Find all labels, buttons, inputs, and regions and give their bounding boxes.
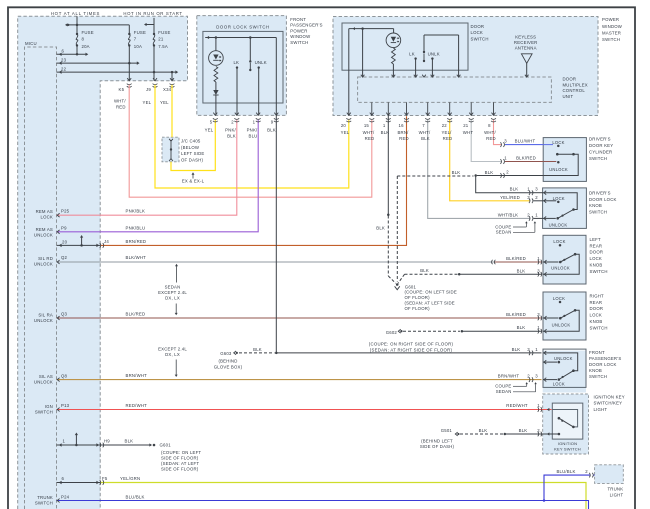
svg-text:DOOR: DOOR [471, 24, 485, 29]
svg-text:BLK: BLK [420, 268, 429, 273]
svg-text:1: 1 [537, 403, 540, 408]
svg-text:DRIVER’S: DRIVER’S [589, 191, 611, 196]
svg-text:Q8: Q8 [61, 374, 68, 379]
svg-text:1: 1 [63, 439, 66, 444]
svg-text:7: 7 [134, 37, 137, 42]
svg-text:(SEDAN: AT LEFT SIDE: (SEDAN: AT LEFT SIDE [405, 301, 455, 306]
svg-text:KNOB: KNOB [589, 368, 602, 373]
svg-text:OF DASH): OF DASH) [181, 157, 203, 162]
svg-text:BLK: BLK [485, 170, 494, 175]
svg-text:3: 3 [527, 195, 530, 200]
svg-text:1: 1 [535, 347, 538, 352]
svg-text:BLK/RED: BLK/RED [516, 155, 536, 160]
svg-text:BLK: BLK [125, 439, 134, 444]
svg-text:EX & EX-L: EX & EX-L [182, 179, 205, 184]
svg-text:2: 2 [535, 195, 538, 200]
svg-text:SWITCH: SWITCH [589, 156, 607, 161]
svg-text:BLK: BLK [421, 136, 430, 141]
svg-text:7.5A: 7.5A [158, 44, 168, 49]
svg-text:WINDOW: WINDOW [602, 24, 623, 29]
svg-text:PNK/BLU: PNK/BLU [126, 226, 146, 231]
svg-text:DOOR LOCK: DOOR LOCK [589, 197, 617, 202]
svg-text:WHT: WHT [463, 130, 474, 135]
svg-text:KNOB: KNOB [590, 263, 603, 268]
svg-text:J/C C405: J/C C405 [181, 139, 201, 144]
svg-text:P25: P25 [61, 209, 70, 214]
svg-text:3: 3 [535, 187, 538, 192]
svg-text:UNLOCK: UNLOCK [34, 380, 53, 385]
svg-text:SEDAN: SEDAN [496, 230, 512, 235]
svg-text:BLK: BLK [267, 127, 276, 132]
svg-text:2: 2 [585, 469, 588, 474]
svg-text:SWITCH: SWITCH [590, 326, 608, 331]
svg-text:EXCEPT 2.4L: EXCEPT 2.4L [158, 347, 187, 352]
svg-text:BLK: BLK [512, 347, 521, 352]
svg-text:BLK: BLK [510, 187, 519, 192]
svg-text:BLK/RED: BLK/RED [506, 312, 526, 317]
svg-text:2: 2 [506, 169, 509, 174]
svg-text:8: 8 [82, 37, 85, 42]
svg-text:16: 16 [399, 123, 405, 128]
svg-text:DX, LX: DX, LX [165, 352, 180, 357]
svg-text:2: 2 [537, 428, 540, 433]
svg-text:20A: 20A [82, 44, 90, 49]
svg-text:(SEDAN: AT RIGHT SIDE OF FLOOR: (SEDAN: AT RIGHT SIDE OF FLOOR) [370, 348, 453, 353]
svg-text:G501: G501 [441, 428, 453, 433]
svg-text:CYLINDER: CYLINDER [589, 149, 612, 154]
svg-text:6: 6 [62, 49, 65, 54]
svg-text:IGN: IGN [45, 404, 53, 409]
svg-text:LIGHT: LIGHT [594, 407, 608, 412]
svg-text:DOOR LOCK SWITCH: DOOR LOCK SWITCH [216, 25, 270, 30]
svg-text:RED: RED [116, 105, 126, 110]
svg-text:LIGHT: LIGHT [610, 493, 624, 498]
svg-text:(COUPE: ON LEFT SIDE: (COUPE: ON LEFT SIDE [405, 290, 457, 295]
svg-text:BLK/RED: BLK/RED [126, 312, 146, 317]
svg-text:BLK: BLK [479, 428, 488, 433]
svg-text:SWITCH: SWITCH [35, 501, 53, 506]
svg-text:22: 22 [442, 123, 448, 128]
svg-text:P13: P13 [61, 403, 70, 408]
svg-text:YEL/: YEL/ [441, 130, 452, 135]
svg-text:BRN/: BRN/ [397, 130, 409, 135]
svg-text:1: 1 [527, 187, 530, 192]
svg-text:POWER: POWER [290, 28, 307, 33]
svg-text:UNLOCK: UNLOCK [552, 322, 571, 327]
svg-text:BLK: BLK [517, 325, 526, 330]
svg-text:EXCEPT 2.4L: EXCEPT 2.4L [158, 290, 187, 295]
svg-text:LOCK: LOCK [553, 239, 565, 244]
svg-text:LEFT SIDE: LEFT SIDE [181, 151, 204, 156]
svg-text:MASTER: MASTER [602, 30, 621, 35]
svg-text:MICU: MICU [25, 41, 37, 46]
svg-text:RED/WHT: RED/WHT [506, 403, 528, 408]
svg-text:SIL AS: SIL AS [39, 374, 53, 379]
svg-text:REAR: REAR [590, 300, 603, 305]
svg-text:21: 21 [463, 123, 469, 128]
svg-text:BLU/WHT: BLU/WHT [515, 139, 536, 144]
svg-text:BLU/BLK: BLU/BLK [556, 469, 575, 474]
svg-text:WHT/BLK: WHT/BLK [498, 212, 519, 217]
svg-text:BLK: BLK [452, 170, 461, 175]
svg-text:DOOR LOCK: DOOR LOCK [589, 362, 617, 367]
svg-text:LOCK: LOCK [553, 296, 565, 301]
svg-text:BRN/RED: BRN/RED [126, 239, 147, 244]
svg-text:1: 1 [253, 120, 256, 125]
svg-text:HOT AT ALL TIMES: HOT AT ALL TIMES [51, 11, 100, 16]
svg-text:8: 8 [488, 123, 491, 128]
svg-text:SIDE OF FLOOR): SIDE OF FLOOR) [161, 467, 199, 472]
svg-text:2: 2 [231, 120, 234, 125]
svg-text:UNLOCK: UNLOCK [34, 233, 53, 238]
svg-text:WHT/: WHT/ [484, 130, 496, 135]
svg-text:Q2: Q2 [61, 255, 68, 260]
svg-text:22: 22 [61, 67, 67, 72]
svg-text:SWITCH: SWITCH [290, 40, 308, 45]
svg-text:LOCK: LOCK [590, 256, 603, 261]
svg-text:RED: RED [443, 136, 453, 141]
svg-text:RED: RED [399, 136, 409, 141]
svg-text:IGNITION: IGNITION [558, 441, 577, 446]
svg-text:DRIVER’S: DRIVER’S [589, 137, 611, 142]
svg-text:DOOR KEY: DOOR KEY [589, 143, 613, 148]
svg-text:G603: G603 [220, 351, 232, 356]
svg-text:SWITCH: SWITCH [589, 374, 607, 379]
svg-text:WHT/: WHT/ [419, 130, 431, 135]
svg-text:MULTIPLEX: MULTIPLEX [563, 82, 588, 87]
svg-text:OF FLOOR): OF FLOOR) [405, 306, 431, 311]
svg-text:H9: H9 [104, 439, 110, 444]
svg-text:YEL: YEL [160, 100, 169, 105]
svg-text:LK: LK [233, 60, 239, 65]
svg-text:5: 5 [210, 120, 213, 125]
svg-text:YEL/RED: YEL/RED [500, 195, 520, 200]
svg-text:BRN/WHT: BRN/WHT [126, 373, 148, 378]
svg-text:FUSE: FUSE [82, 30, 94, 35]
svg-text:SWITCH: SWITCH [602, 37, 620, 42]
svg-text:SWITCH: SWITCH [590, 269, 608, 274]
svg-text:3: 3 [527, 347, 530, 352]
svg-text:1: 1 [537, 325, 540, 330]
svg-text:WHT/: WHT/ [114, 99, 126, 104]
svg-text:BLK/RED: BLK/RED [506, 256, 526, 261]
svg-text:BLK/WHT: BLK/WHT [126, 255, 147, 260]
svg-text:X34: X34 [163, 87, 172, 92]
svg-text:K5: K5 [119, 87, 125, 92]
svg-text:SWITCH/KEY: SWITCH/KEY [594, 401, 623, 406]
svg-text:BLK: BLK [517, 268, 526, 273]
svg-text:KNOB: KNOB [589, 203, 602, 208]
svg-text:LOCK: LOCK [40, 215, 53, 220]
svg-text:COUPE: COUPE [495, 384, 511, 389]
svg-text:DX, LX: DX, LX [165, 296, 180, 301]
svg-text:SIDE OF DASH): SIDE OF DASH) [420, 444, 455, 449]
svg-text:15: 15 [364, 123, 370, 128]
svg-text:23: 23 [61, 58, 67, 63]
svg-text:RECEIVER: RECEIVER [514, 40, 538, 45]
svg-text:DOOR: DOOR [590, 250, 604, 255]
svg-text:CONTROL: CONTROL [563, 88, 586, 93]
svg-text:YEL: YEL [143, 100, 152, 105]
svg-text:F5: F5 [102, 476, 108, 481]
svg-text:3: 3 [535, 374, 538, 379]
svg-text:BLK: BLK [376, 226, 385, 231]
svg-text:LOCK: LOCK [552, 140, 564, 145]
svg-text:UNLOCK: UNLOCK [549, 167, 568, 172]
svg-text:UNLK: UNLK [428, 51, 440, 56]
svg-text:RED: RED [365, 136, 375, 141]
svg-text:YEL: YEL [341, 130, 350, 135]
svg-text:SEDAN: SEDAN [165, 285, 181, 290]
svg-text:(BEHIND: (BEHIND [218, 359, 237, 364]
svg-text:REM AS: REM AS [36, 227, 53, 232]
svg-text:21: 21 [158, 37, 164, 42]
svg-text:WHT/: WHT/ [363, 130, 375, 135]
svg-text:UNLOCK: UNLOCK [549, 223, 568, 228]
svg-text:(COUPE: ON RIGHT SIDE OF FLOOR: (COUPE: ON RIGHT SIDE OF FLOOR) [369, 342, 454, 347]
svg-text:3: 3 [537, 312, 540, 317]
svg-text:1: 1 [504, 155, 507, 160]
svg-text:SIL RD: SIL RD [38, 256, 53, 261]
svg-text:SIL RA: SIL RA [38, 312, 53, 317]
svg-text:LOCK: LOCK [553, 196, 565, 201]
svg-text:2: 2 [527, 212, 530, 217]
svg-text:DOOR: DOOR [563, 77, 577, 82]
svg-text:1: 1 [537, 256, 540, 261]
svg-text:(SEDAN: AT LEFT: (SEDAN: AT LEFT [161, 461, 199, 466]
svg-text:BLK: BLK [253, 347, 262, 352]
svg-text:20: 20 [341, 123, 347, 128]
svg-text:UNIT: UNIT [563, 94, 574, 99]
svg-text:PNK/: PNK/ [225, 127, 236, 132]
svg-text:(BELOW: (BELOW [181, 145, 200, 150]
svg-text:LK: LK [409, 51, 415, 56]
svg-text:BLK: BLK [381, 130, 390, 135]
svg-text:YEL: YEL [205, 127, 214, 132]
svg-text:20: 20 [62, 240, 68, 245]
svg-text:2: 2 [527, 374, 530, 379]
svg-text:G602: G602 [386, 330, 398, 335]
svg-text:UNLOCK: UNLOCK [551, 266, 570, 271]
svg-text:TRUNK: TRUNK [37, 495, 53, 500]
svg-text:UNLOCK: UNLOCK [34, 318, 53, 323]
svg-text:BLK: BLK [227, 133, 236, 138]
svg-text:1: 1 [535, 212, 538, 217]
svg-text:P24: P24 [61, 494, 70, 499]
svg-text:BLK: BLK [519, 428, 528, 433]
svg-text:G601: G601 [160, 443, 172, 448]
svg-text:GLOVE BOX): GLOVE BOX) [214, 365, 243, 370]
svg-text:SEDAN: SEDAN [496, 389, 512, 394]
svg-text:YEL/GRN: YEL/GRN [120, 476, 140, 481]
svg-text:J4: J4 [104, 239, 109, 244]
svg-text:SIDE OF FLOOR): SIDE OF FLOOR) [161, 456, 199, 461]
svg-text:REM AS: REM AS [36, 209, 53, 214]
svg-text:FUSE: FUSE [134, 30, 146, 35]
svg-text:LOCK: LOCK [471, 30, 484, 35]
svg-text:LOCK: LOCK [553, 382, 565, 387]
svg-text:Q3: Q3 [61, 312, 68, 317]
svg-text:KEYLESS: KEYLESS [515, 34, 536, 39]
svg-text:RED: RED [486, 136, 496, 141]
svg-text:FRONT: FRONT [589, 350, 605, 355]
svg-text:SWITCH: SWITCH [589, 209, 607, 214]
svg-text:KNOB: KNOB [590, 319, 603, 324]
svg-text:IGNITION KEY: IGNITION KEY [594, 394, 625, 399]
svg-text:PASSENGER’S: PASSENGER’S [290, 23, 322, 28]
svg-text:BRN/WHT: BRN/WHT [498, 374, 520, 379]
svg-text:UNLOCK: UNLOCK [34, 262, 53, 267]
svg-text:P9: P9 [61, 226, 67, 231]
svg-text:FRONT: FRONT [290, 17, 306, 22]
svg-text:COUPE: COUPE [495, 224, 511, 229]
svg-text:10A: 10A [134, 44, 142, 49]
svg-text:PNK/: PNK/ [247, 127, 258, 132]
svg-text:3: 3 [537, 268, 540, 273]
svg-text:LEFT: LEFT [590, 237, 601, 242]
svg-text:ANTENNA: ANTENNA [515, 46, 537, 51]
svg-text:POWER: POWER [602, 17, 619, 22]
svg-text:SWITCH: SWITCH [35, 410, 53, 415]
svg-text:KEY SWITCH: KEY SWITCH [554, 446, 581, 451]
svg-text:OF FLOOR): OF FLOOR) [405, 295, 431, 300]
svg-text:RED/WHT: RED/WHT [126, 403, 148, 408]
svg-text:SWITCH: SWITCH [471, 36, 489, 41]
svg-text:UNLK: UNLK [255, 60, 267, 65]
svg-text:DOOR: DOOR [590, 306, 604, 311]
svg-text:3: 3 [504, 139, 507, 144]
svg-text:TRUNK: TRUNK [607, 487, 623, 492]
svg-text:RIGHT: RIGHT [590, 293, 605, 298]
svg-text:1: 1 [383, 123, 386, 128]
svg-text:HOT IN RUN OR START: HOT IN RUN OR START [123, 11, 182, 16]
svg-text:7: 7 [422, 123, 425, 128]
svg-text:REAR: REAR [590, 243, 603, 248]
svg-text:(BEHIND LEFT: (BEHIND LEFT [421, 439, 453, 444]
svg-text:PASSENGER’S: PASSENGER’S [589, 356, 621, 361]
svg-text:J9: J9 [146, 87, 151, 92]
svg-text:BLU/BLK: BLU/BLK [126, 494, 145, 499]
svg-text:PNK/BLK: PNK/BLK [126, 209, 146, 214]
svg-text:9: 9 [271, 120, 274, 125]
svg-text:WINDOW: WINDOW [290, 34, 311, 39]
svg-text:(COUPE: ON LEFT: (COUPE: ON LEFT [161, 450, 201, 455]
svg-text:UNLOCK: UNLOCK [554, 356, 573, 361]
svg-text:LOCK: LOCK [590, 313, 603, 318]
svg-text:FUSE: FUSE [158, 30, 170, 35]
svg-text:BLU: BLU [249, 133, 258, 138]
svg-text:6: 6 [62, 476, 65, 481]
